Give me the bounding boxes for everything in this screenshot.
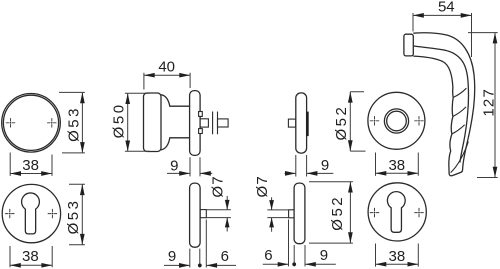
svg-text:38: 38 <box>389 248 406 265</box>
svg-text:Ø50: Ø50 <box>111 102 128 138</box>
svg-text:9: 9 <box>168 248 176 265</box>
svg-text:Ø7: Ø7 <box>210 175 227 197</box>
svg-text:38: 38 <box>22 157 39 174</box>
svg-text:38: 38 <box>22 248 39 265</box>
svg-text:54: 54 <box>438 0 455 15</box>
svg-text:6: 6 <box>264 247 272 264</box>
svg-text:Ø52: Ø52 <box>329 195 346 231</box>
svg-text:Ø53: Ø53 <box>65 199 82 235</box>
svg-text:40: 40 <box>158 58 175 75</box>
svg-text:9: 9 <box>170 158 178 175</box>
svg-text:9: 9 <box>321 157 329 174</box>
svg-text:6: 6 <box>221 248 229 265</box>
svg-text:38: 38 <box>388 157 405 174</box>
svg-text:9: 9 <box>320 247 328 264</box>
svg-text:127: 127 <box>480 88 497 117</box>
svg-text:Ø52: Ø52 <box>333 105 350 141</box>
svg-text:Ø53: Ø53 <box>66 106 83 142</box>
svg-text:Ø7: Ø7 <box>254 175 271 197</box>
